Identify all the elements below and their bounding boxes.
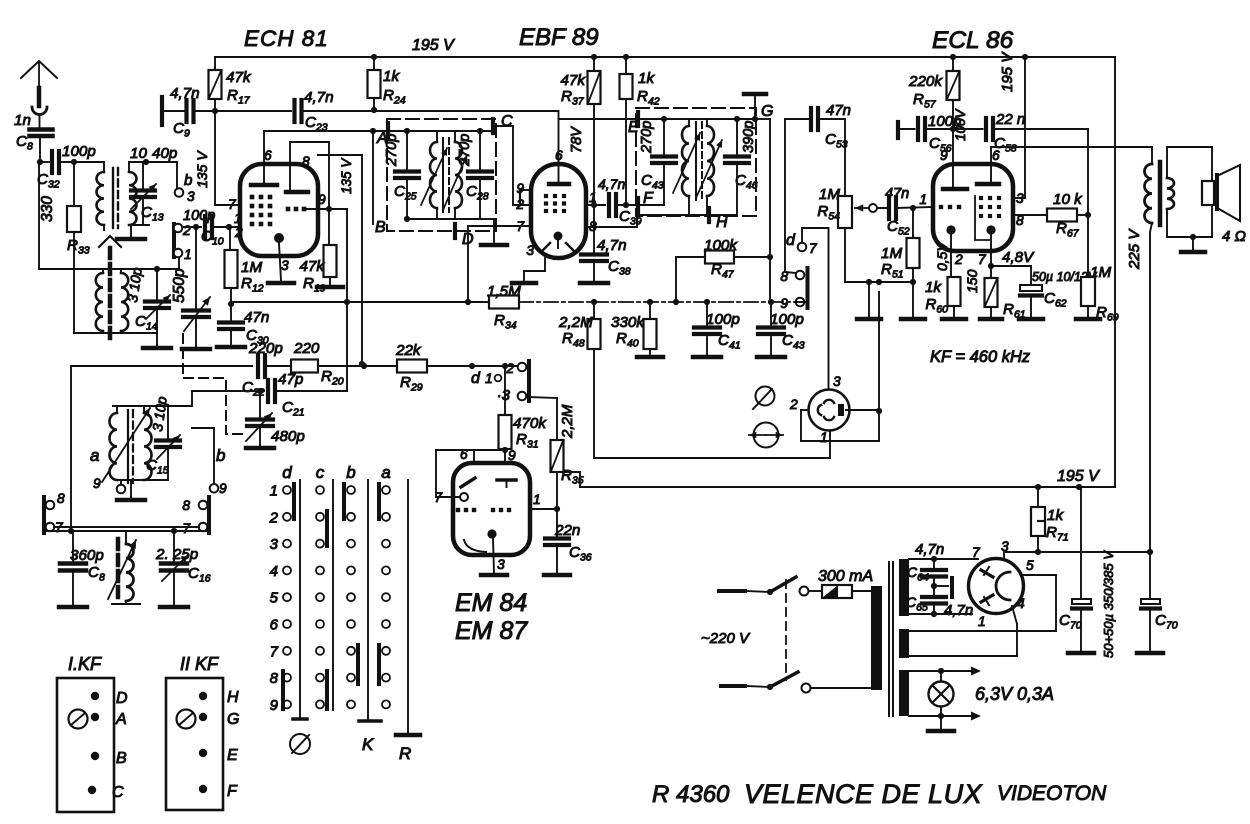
svg-text:VELENCE DE LUX: VELENCE DE LUX [744,779,983,809]
svg-text:C: C [112,784,124,801]
svg-text:d: d [282,463,292,482]
svg-text:d: d [471,370,481,387]
svg-text:7: 7 [972,545,981,560]
svg-text:4: 4 [270,563,278,580]
svg-text:135 V: 135 V [194,150,210,188]
svg-text:3: 3 [1001,539,1009,554]
svg-text:2,2M: 2,2M [559,404,576,439]
svg-text:EM 87: EM 87 [455,617,528,645]
svg-text:22n: 22n [554,522,580,539]
svg-text:50+50µ 350/385 V: 50+50µ 350/385 V [1101,550,1116,658]
svg-text:E: E [227,747,238,764]
svg-text:1M: 1M [241,259,262,276]
svg-text:7: 7 [228,197,237,212]
svg-text:1: 1 [184,247,192,262]
svg-text:480p: 480p [271,428,305,445]
svg-text:K: K [362,735,374,754]
svg-text:VIDEOTON: VIDEOTON [997,782,1107,805]
svg-text:9: 9 [93,476,101,491]
svg-text:4,7n: 4,7n [304,89,334,106]
svg-text:3: 3 [526,243,534,258]
svg-text:6,3V 0,3A: 6,3V 0,3A [975,684,1054,704]
svg-text:9: 9 [318,192,326,207]
svg-text:100V: 100V [953,107,968,141]
svg-text:9: 9 [516,181,524,196]
svg-text:3: 3 [187,189,195,204]
svg-text:·3: ·3 [497,387,511,404]
svg-text:135 V: 135 V [339,157,354,194]
svg-text:22k: 22k [395,342,422,359]
svg-text:8: 8 [57,491,65,506]
svg-text:G: G [761,103,773,120]
svg-text:8: 8 [780,269,788,284]
svg-text:22 n: 22 n [995,111,1025,128]
svg-text:H: H [227,689,239,706]
svg-text:1M: 1M [1090,264,1111,281]
svg-text:330k: 330k [611,314,645,331]
svg-text:R: R [399,744,411,763]
svg-text:195 V: 195 V [412,37,455,54]
svg-text:7: 7 [978,252,987,267]
svg-text:7: 7 [809,241,818,256]
svg-text:4,7n: 4,7n [170,85,200,102]
svg-text:EM 84: EM 84 [455,589,527,617]
svg-text:3: 3 [281,258,289,273]
svg-text:195 V: 195 V [1057,468,1100,485]
svg-text:9: 9 [270,697,279,714]
svg-text:F: F [643,190,654,207]
svg-text:I.KF: I.KF [68,654,102,674]
svg-text:10 k: 10 k [1053,191,1083,208]
svg-text:b: b [216,446,225,465]
svg-text:1: 1 [485,371,493,386]
svg-text:47n: 47n [826,102,851,119]
svg-text:4,8V: 4,8V [1002,249,1035,266]
svg-text:1k: 1k [925,279,942,296]
svg-text:7: 7 [270,643,279,660]
svg-text:6: 6 [555,148,563,163]
svg-text:3: 3 [833,374,841,389]
svg-text:2. 25p: 2. 25p [155,546,198,563]
svg-text:6: 6 [264,148,272,163]
svg-text:360p: 360p [70,547,104,564]
svg-text:4: 4 [1017,596,1025,611]
svg-text:100k: 100k [704,237,738,254]
svg-text:47p: 47p [278,371,303,388]
svg-text:6: 6 [460,447,468,462]
svg-text:100p: 100p [706,311,740,328]
svg-text:1M: 1M [819,186,840,203]
svg-text:195 V: 195 V [999,51,1016,92]
svg-text:9: 9 [219,481,227,496]
svg-text:7: 7 [182,521,191,536]
svg-text:10: 10 [130,145,147,162]
svg-text:4,7n: 4,7n [944,602,973,619]
svg-text:550p: 550p [171,268,188,303]
svg-text:100p: 100p [770,311,804,328]
svg-text:1: 1 [820,430,828,445]
svg-text:~220 V: ~220 V [701,630,751,647]
svg-text:F: F [227,783,238,800]
svg-text:9: 9 [780,296,788,311]
svg-text:2,2M: 2,2M [558,314,593,331]
svg-text:225 V: 225 V [1126,228,1143,270]
svg-text:a: a [381,463,390,482]
svg-text:390p: 390p [741,121,757,153]
svg-text:KF = 460 kHz: KF = 460 kHz [930,348,1031,366]
svg-text:d: d [786,232,796,249]
svg-text:G: G [227,711,239,728]
svg-text:220p: 220p [248,340,283,357]
svg-text:47k: 47k [226,69,252,86]
svg-text:0,5V: 0,5V [934,241,950,271]
svg-text:270p: 270p [639,121,655,154]
svg-text:7: 7 [434,490,443,505]
svg-text:40p: 40p [152,145,177,162]
svg-text:5: 5 [270,590,279,607]
svg-text:2: 2 [182,223,191,238]
svg-text:6: 6 [992,148,1000,163]
svg-text:a: a [90,446,99,465]
svg-text:1: 1 [533,492,541,507]
svg-text:270p: 270p [384,134,400,167]
svg-text:2: 2 [789,397,798,412]
svg-text:270p: 270p [457,134,473,167]
svg-text:E: E [628,119,639,136]
svg-text:100p: 100p [183,208,215,224]
svg-text:2: 2 [954,252,963,267]
svg-text:1n: 1n [14,112,31,129]
svg-text:b: b [184,172,192,189]
svg-text:330: 330 [39,196,56,222]
svg-text:1: 1 [270,483,278,500]
svg-text:6: 6 [270,617,279,634]
svg-text:1k: 1k [638,70,655,87]
svg-text:EBF 89: EBF 89 [519,24,599,51]
svg-text:78V: 78V [569,126,585,153]
svg-text:4 Ω: 4 Ω [1222,228,1246,245]
svg-text:1: 1 [919,192,927,207]
svg-text:1: 1 [234,211,242,226]
svg-text:220: 220 [293,340,320,357]
svg-text:2: 2 [269,509,279,526]
svg-text:2: 2 [515,197,524,212]
svg-text:II KF: II KF [180,654,219,674]
svg-text:b: b [346,463,355,482]
svg-text:8: 8 [302,154,310,169]
svg-text:c: c [316,463,325,482]
svg-text:A: A [115,711,127,728]
svg-text:4,7n: 4,7n [597,237,627,254]
svg-text:8: 8 [270,670,279,687]
svg-text:1: 1 [978,614,986,629]
svg-text:3: 3 [270,536,279,553]
svg-text:1k: 1k [383,68,400,85]
svg-text:470k: 470k [513,415,547,432]
svg-text:4,7n: 4,7n [915,541,944,558]
svg-text:220k: 220k [908,73,943,90]
svg-text:1k: 1k [1047,507,1064,524]
svg-text:47k: 47k [561,72,587,89]
svg-text:R 4360: R 4360 [652,781,730,808]
svg-text:2: 2 [505,361,514,376]
svg-text:150: 150 [964,269,980,293]
svg-text:5: 5 [1026,558,1034,573]
svg-text:2: 2 [234,225,243,240]
svg-text:47n: 47n [244,309,269,326]
svg-text:9: 9 [940,148,948,163]
svg-text:1M: 1M [881,245,902,262]
svg-text:B: B [375,219,386,236]
svg-text:3: 3 [497,556,505,572]
svg-text:ECL 86: ECL 86 [932,27,1014,54]
svg-text:300 mA: 300 mA [818,568,873,585]
svg-text:B: B [116,750,127,767]
svg-text:C: C [501,113,513,130]
svg-text:47k: 47k [300,258,326,275]
svg-text:H: H [716,214,728,231]
svg-text:9: 9 [508,448,516,463]
svg-text:4,7n: 4,7n [598,176,625,192]
svg-text:D: D [116,690,128,707]
svg-text:1,5M: 1,5M [487,283,521,300]
svg-text:100p: 100p [62,143,96,160]
svg-text:8: 8 [182,498,190,513]
svg-text:ECH 81: ECH 81 [244,26,329,51]
